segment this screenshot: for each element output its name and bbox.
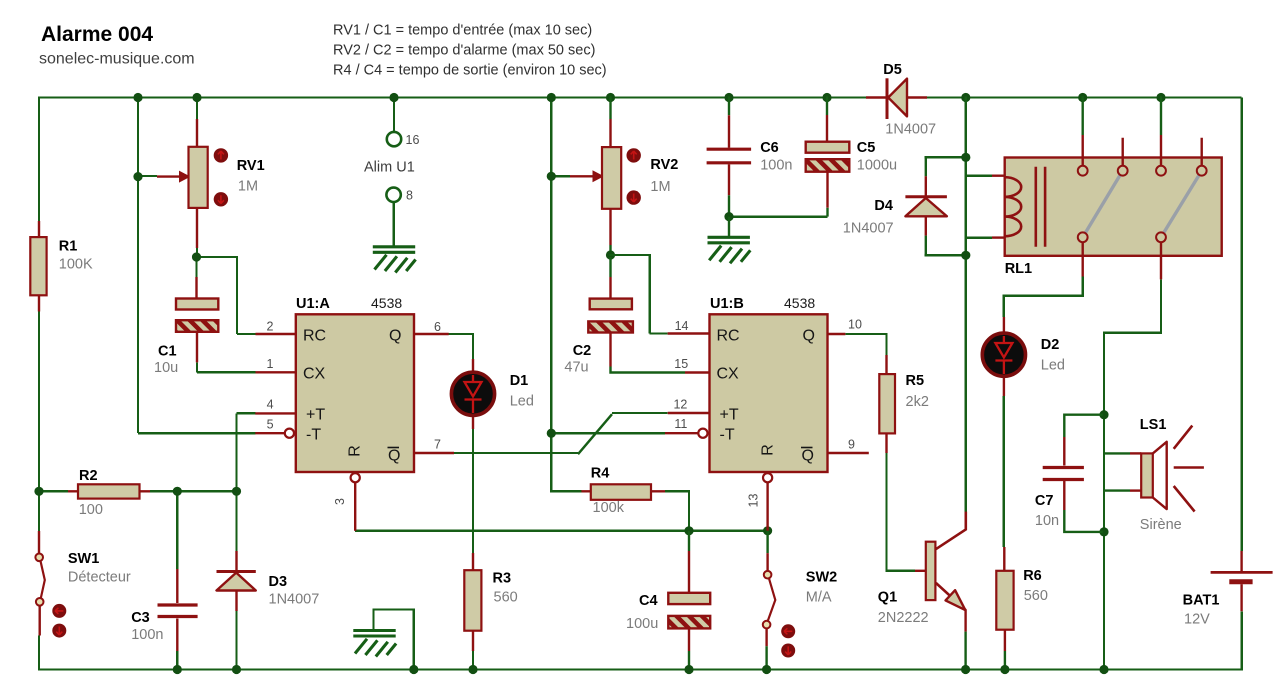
svg-text:C3: C3 xyxy=(131,610,150,626)
svg-text:Alarme 004: Alarme 004 xyxy=(41,23,153,46)
svg-text:3: 3 xyxy=(333,498,347,505)
svg-text:R2: R2 xyxy=(79,468,98,484)
wire RV1 wiper stub xyxy=(138,175,157,177)
svg-text:RC: RC xyxy=(303,328,326,345)
junction dot C3 top xyxy=(173,487,182,496)
svg-text:100k: 100k xyxy=(593,500,625,516)
junction dot bottom bus Q1 xyxy=(961,665,970,674)
svg-text:+T: +T xyxy=(720,407,739,424)
svg-text:R4 / C4 = tempo de sortie (env: R4 / C4 = tempo de sortie (environ 10 se… xyxy=(333,63,607,79)
junction dot RV1 wiper x138 xyxy=(133,172,142,181)
capacitor C2 xyxy=(588,257,685,373)
junction dot top bus x965 xyxy=(961,93,970,102)
svg-text:D3: D3 xyxy=(269,574,288,590)
loudspeaker LS1 xyxy=(1104,426,1204,512)
svg-text:Sirène: Sirène xyxy=(1140,517,1182,533)
svg-text:C1: C1 xyxy=(158,344,177,360)
wire Qbar pin7 run xyxy=(454,452,578,454)
wire relay coil bottom feed xyxy=(966,236,1005,238)
wire D4 top link xyxy=(925,156,966,158)
svg-text:RV2 / C2 = tempo d'alarme (max: RV2 / C2 = tempo d'alarme (max 50 sec) xyxy=(333,43,595,59)
wire RV1 top lead green xyxy=(196,96,198,119)
wire top bus right of D5 xyxy=(927,96,1242,98)
junction dot bottom bus ground hook xyxy=(409,665,418,674)
resistor R4 xyxy=(581,484,665,500)
svg-text:C7: C7 xyxy=(1035,493,1054,509)
resistor R6 xyxy=(996,547,1013,670)
wire D4 bottom link xyxy=(925,254,966,256)
svg-text:100u: 100u xyxy=(626,616,658,632)
svg-text:R: R xyxy=(760,444,777,456)
svg-text:RV1: RV1 xyxy=(237,158,265,174)
junction dot top bus x394 xyxy=(389,93,398,102)
pin stub 11 -T with bubble xyxy=(665,429,708,438)
svg-text:M/A: M/A xyxy=(806,590,832,606)
svg-text:2N2222: 2N2222 xyxy=(878,610,929,626)
junction dot D3 top xyxy=(232,487,241,496)
wire right border lower xyxy=(1240,611,1242,670)
wire RV1 bottom to dot xyxy=(196,248,198,258)
svg-text:14: 14 xyxy=(675,319,689,333)
svg-text:R: R xyxy=(347,445,364,457)
svg-text:R3: R3 xyxy=(493,570,512,586)
svg-text:R4: R4 xyxy=(591,466,610,482)
svg-text:D2: D2 xyxy=(1041,337,1060,353)
wire Alim U1 pin16 drop xyxy=(393,96,395,132)
svg-text:15: 15 xyxy=(674,357,688,371)
pin name Qbar U1:B xyxy=(801,448,814,465)
junction dot bottom bus D3 xyxy=(232,665,241,674)
wire D2 to R6 xyxy=(1003,396,1005,547)
pin stub 9 Qbar unconnected xyxy=(828,452,869,454)
wire R2 left xyxy=(39,490,68,492)
svg-text:Q1: Q1 xyxy=(878,590,897,606)
wire ground bottom-left hook xyxy=(374,610,414,671)
svg-text:11: 11 xyxy=(674,417,687,431)
junction dot top bus C6 xyxy=(724,93,733,102)
junction dot RV2 wiper xyxy=(547,172,556,181)
junction dot D4 bottom xyxy=(961,251,970,260)
wire pin4 horizontal xyxy=(237,412,256,414)
resistor R5 xyxy=(879,355,895,453)
svg-text:2k2: 2k2 xyxy=(906,394,929,410)
junction dot pin11 xyxy=(547,429,556,438)
wire D1 cathode to R3 xyxy=(472,429,474,554)
svg-text:4538: 4538 xyxy=(784,295,815,311)
svg-text:+T: +T xyxy=(306,407,325,424)
svg-text:12: 12 xyxy=(673,398,687,412)
junction dot C7 bottom xyxy=(1099,527,1108,536)
svg-text:-T: -T xyxy=(306,427,321,444)
svg-text:U1:A: U1:A xyxy=(296,296,330,312)
svg-text:CX: CX xyxy=(303,366,326,383)
op-amp U1:B monostable box xyxy=(710,314,828,472)
svg-text:C6: C6 xyxy=(760,140,779,156)
wire x551 bus to pin11 xyxy=(550,96,552,433)
wire pin3 reset long run xyxy=(355,530,767,532)
svg-text:4538: 4538 xyxy=(371,295,402,311)
LED D1 xyxy=(451,359,494,429)
svg-text:100: 100 xyxy=(79,502,103,518)
svg-text:LS1: LS1 xyxy=(1140,417,1167,433)
LED D2 xyxy=(982,317,1025,396)
svg-text:SW2: SW2 xyxy=(806,570,837,586)
pin stub 14 RC xyxy=(668,332,710,334)
wire pin11 run xyxy=(551,432,665,434)
wire x551 down to R4 corner xyxy=(551,433,581,491)
wire left border upper xyxy=(38,96,40,221)
svg-text:Led: Led xyxy=(510,394,534,410)
svg-text:10n: 10n xyxy=(1035,513,1059,529)
resistor R1 xyxy=(38,221,40,312)
svg-text:-T: -T xyxy=(720,427,735,444)
wire R2 right to pin4 corner xyxy=(150,490,238,492)
pin stub 10 Q xyxy=(828,333,846,335)
wire left border middle xyxy=(38,312,40,532)
wire relay pole2 to LS1 column xyxy=(1104,279,1162,669)
wire RV2 wiper stub xyxy=(551,175,570,177)
svg-text:RV2: RV2 xyxy=(650,157,678,173)
diode D4 xyxy=(905,157,947,255)
svg-text:Q: Q xyxy=(802,448,814,465)
wire x965 vertical xyxy=(965,96,967,512)
junction dot top bus x551 xyxy=(547,93,556,102)
svg-text:9: 9 xyxy=(848,438,855,452)
svg-text:Détecteur: Détecteur xyxy=(68,570,131,586)
junction dot C7 top xyxy=(1099,410,1108,419)
junction dot C4 top xyxy=(684,526,693,535)
junction dot bottom bus R3 xyxy=(468,665,477,674)
pin stub 12 +T xyxy=(668,412,710,414)
junction dot RV1 bottom xyxy=(192,252,201,261)
svg-text:1M: 1M xyxy=(238,179,258,195)
svg-text:8: 8 xyxy=(406,189,413,203)
wire dot to C1 top xyxy=(195,257,197,278)
wire C3 upper xyxy=(176,491,178,569)
svg-text:Led: Led xyxy=(1041,358,1065,374)
junction dot D4 top xyxy=(961,153,970,162)
svg-text:7: 7 xyxy=(434,438,441,452)
svg-text:Alim U1: Alim U1 xyxy=(364,160,415,176)
svg-text:1N4007: 1N4007 xyxy=(269,592,320,608)
svg-text:C5: C5 xyxy=(857,140,876,156)
wire left border lower xyxy=(38,636,40,670)
pin stub 5 -T with bubble xyxy=(255,429,294,438)
resistor R3 xyxy=(464,553,481,651)
svg-text:C4: C4 xyxy=(639,593,658,609)
wire pin4 vertical xyxy=(235,413,237,492)
wire pin7 to pin12 diagonal jog xyxy=(578,414,612,454)
junction dot SW2 top xyxy=(763,526,772,535)
svg-text:100n: 100n xyxy=(131,627,163,643)
svg-text:RV1 / C1 = tempo d'entrée (max: RV1 / C1 = tempo d'entrée (max 10 sec) xyxy=(333,23,592,39)
node Alim U1 pin 8 xyxy=(386,188,400,202)
wire pin5 horizontal run xyxy=(138,432,255,434)
wire bottom bus xyxy=(38,668,1242,670)
wire Q pin6 run xyxy=(449,334,475,359)
op-amp U1:A monostable box xyxy=(296,314,414,472)
wire pin2 vertical xyxy=(236,256,238,334)
wire pin12 level run xyxy=(612,412,668,414)
svg-text:10u: 10u xyxy=(154,360,178,376)
switch SW2 xyxy=(763,531,795,670)
svg-text:1N4007: 1N4007 xyxy=(843,221,894,237)
pin stub 15 CX xyxy=(685,371,710,373)
diode D3 xyxy=(217,551,256,611)
svg-text:RL1: RL1 xyxy=(1005,261,1032,277)
svg-text:12V: 12V xyxy=(1184,612,1210,628)
capacitor C7 xyxy=(1043,414,1103,532)
junction dot top bus x610 xyxy=(606,93,615,102)
svg-text:Q: Q xyxy=(388,448,400,465)
junction dot RV2 bottom xyxy=(606,250,615,259)
svg-text:R1: R1 xyxy=(59,239,78,255)
junction dot top bus relay pole1 xyxy=(1078,93,1087,102)
resistor R2 xyxy=(68,484,150,498)
wire D3 lower xyxy=(235,611,237,670)
svg-text:D1: D1 xyxy=(510,373,529,389)
pin 3 R bubble and stub xyxy=(351,473,360,531)
svg-text:4: 4 xyxy=(267,398,274,412)
svg-text:BAT1: BAT1 xyxy=(1183,593,1220,609)
relay RL1 xyxy=(1005,96,1222,279)
pin 13 R bubble and stub xyxy=(763,473,772,531)
ground symbol Alim U1 xyxy=(373,247,416,273)
wire dot right to pin2 corner xyxy=(195,256,237,258)
wire pin10 to R5 xyxy=(845,334,887,355)
wire Alim U1 pin8 to ground xyxy=(392,202,394,247)
wire C3 lower xyxy=(176,651,178,670)
svg-text:5: 5 xyxy=(267,417,274,431)
svg-text:R5: R5 xyxy=(906,373,925,389)
battery BAT1 xyxy=(1211,551,1273,611)
junction dot bottom bus SW2 xyxy=(762,665,771,674)
svg-text:560: 560 xyxy=(1024,588,1048,604)
svg-text:U1:B: U1:B xyxy=(710,296,744,312)
svg-text:SW1: SW1 xyxy=(68,551,99,567)
capacitor C5 xyxy=(806,96,850,216)
svg-text:47u: 47u xyxy=(564,360,588,376)
pin stub 2 RC xyxy=(256,333,296,335)
svg-text:16: 16 xyxy=(406,133,420,147)
wire node A vertical x138 bus to pin5 level xyxy=(137,96,139,433)
svg-text:10: 10 xyxy=(848,318,862,332)
svg-text:560: 560 xyxy=(494,590,518,606)
svg-text:2: 2 xyxy=(266,320,273,334)
potentiometer RV2 xyxy=(570,96,641,258)
wire top bus left of D5 xyxy=(39,96,866,98)
svg-text:100n: 100n xyxy=(760,158,792,174)
capacitor C1 xyxy=(176,277,218,362)
svg-text:sonelec-musique.com: sonelec-musique.com xyxy=(39,51,195,68)
svg-text:Q: Q xyxy=(389,328,401,345)
wire C1 bottom to pin1 xyxy=(197,362,256,372)
svg-text:R6: R6 xyxy=(1023,568,1042,584)
transistor Q1 xyxy=(915,512,966,670)
ground symbol C6 C5 xyxy=(708,217,751,264)
pin stub 1 CX xyxy=(256,371,296,373)
capacitor C3 xyxy=(158,569,198,651)
junction dot bottom bus LS1 xyxy=(1099,665,1108,674)
wire relay pole1 to D2 xyxy=(1004,277,1084,317)
wire R5 to Q1 base xyxy=(887,453,916,572)
wire R4 right to pin3 line xyxy=(665,490,689,531)
capacitor C6 xyxy=(707,96,752,216)
wire C6 C5 ground link xyxy=(729,215,828,217)
svg-text:C2: C2 xyxy=(573,343,592,359)
wire R3 bottom xyxy=(472,651,474,670)
svg-text:1M: 1M xyxy=(650,179,670,195)
svg-text:RC: RC xyxy=(717,328,740,345)
svg-text:D4: D4 xyxy=(874,198,893,214)
junction dot C6 ground xyxy=(724,212,733,221)
junction dot top bus C5 xyxy=(822,93,831,102)
svg-text:1000u: 1000u xyxy=(857,158,897,174)
potentiometer RV1 xyxy=(157,119,228,248)
pin stub 7 Qbar xyxy=(414,452,454,454)
pin stub 6 Q xyxy=(414,333,449,335)
svg-text:1: 1 xyxy=(266,357,273,371)
wire D3 upper xyxy=(235,491,237,551)
junction dot bottom bus C4 xyxy=(684,665,693,674)
switch SW1 xyxy=(35,531,66,638)
pin stub 4 +T xyxy=(255,412,295,414)
svg-text:6: 6 xyxy=(434,320,441,334)
svg-text:Q: Q xyxy=(803,328,815,345)
junction dot left border R2 xyxy=(34,487,43,496)
svg-text:D5: D5 xyxy=(883,62,902,78)
wire relay coil top feed xyxy=(966,174,1005,176)
junction dot bottom bus R6 xyxy=(1000,665,1009,674)
junction dot top bus x197 xyxy=(192,93,201,102)
capacitor C4 xyxy=(668,531,710,670)
junction dot top bus x138 xyxy=(133,93,142,102)
ground symbol bottom-left xyxy=(353,631,396,657)
svg-text:CX: CX xyxy=(717,366,740,383)
wire right border upper xyxy=(1240,98,1242,552)
junction dot top bus relay pole2 xyxy=(1156,93,1165,102)
wire pin2 horizontal xyxy=(237,333,256,335)
wire RV2 dot to pin14 corner xyxy=(609,254,667,334)
svg-text:100K: 100K xyxy=(59,257,93,273)
svg-text:1N4007: 1N4007 xyxy=(885,122,936,138)
diode D5 xyxy=(866,78,927,119)
svg-text:13: 13 xyxy=(747,494,761,508)
junction dot bottom bus C3 xyxy=(173,665,182,674)
pin name Qbar U1:A xyxy=(388,448,401,465)
node Alim U1 pin 16 xyxy=(387,132,401,146)
